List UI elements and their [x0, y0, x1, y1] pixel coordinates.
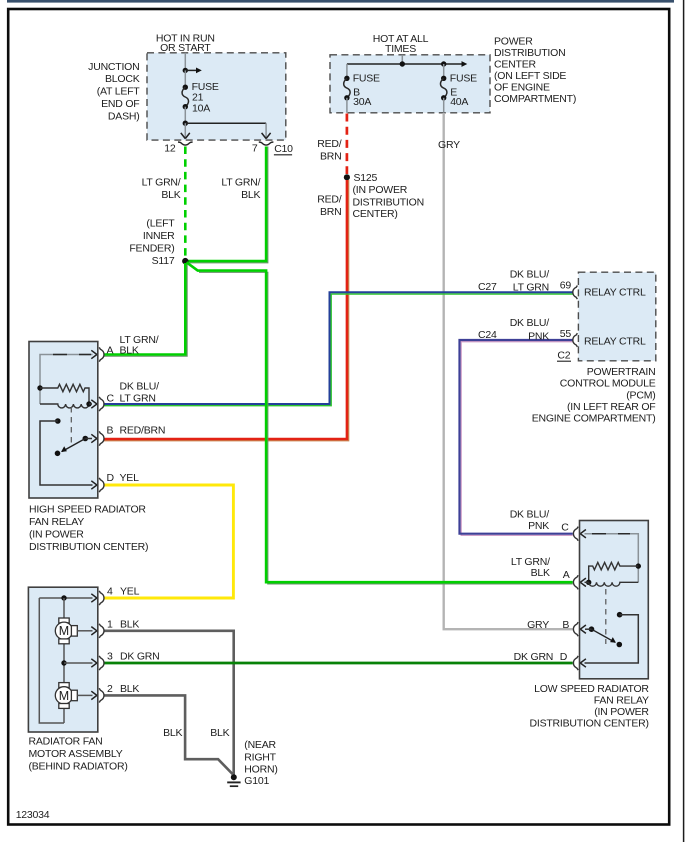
pin 3 connector — [99, 651, 159, 670]
relay coil (resistor + winding) — [586, 562, 641, 586]
svg-text:YEL: YEL — [120, 472, 140, 484]
high speed radiator fan relay box — [29, 342, 98, 499]
wire LT GRN/BLK from pin 12 (dashed) — [142, 147, 186, 259]
svg-text:MOTOR ASSEMBLY: MOTOR ASSEMBLY — [29, 748, 123, 760]
svg-text:G101: G101 — [244, 775, 269, 787]
wire LT GRN/BLK from pin 7 — [188, 147, 268, 263]
svg-text:C10: C10 — [274, 143, 293, 155]
svg-text:DK BLU/: DK BLU/ — [510, 317, 550, 329]
svg-text:CENTER): CENTER) — [353, 208, 398, 220]
splice S117 — [129, 217, 188, 266]
ground G101 — [227, 739, 277, 787]
svg-text:TIMES: TIMES — [385, 43, 416, 55]
label HOT IN RUN OR START — [156, 33, 215, 54]
svg-text:DK BLU/: DK BLU/ — [120, 381, 160, 393]
svg-text:DK GRN: DK GRN — [514, 651, 554, 663]
svg-text:(IN POWER: (IN POWER — [353, 184, 408, 196]
svg-text:INNER: INNER — [143, 230, 175, 242]
pin 1 connector — [99, 619, 139, 638]
svg-text:LT GRN/: LT GRN/ — [142, 177, 181, 189]
svg-text:BLK: BLK — [210, 727, 229, 739]
svg-text:LT GRN/: LT GRN/ — [511, 556, 550, 568]
pin B connector (low speed) — [527, 619, 578, 636]
junction block box — [147, 53, 286, 140]
svg-text:END OF: END OF — [101, 98, 139, 110]
pin D connector (low speed) — [514, 651, 579, 670]
svg-text:RED/: RED/ — [317, 138, 342, 150]
svg-text:RED/: RED/ — [317, 193, 342, 205]
connector drop pin 7 — [262, 123, 271, 138]
connector name C2 — [557, 350, 571, 362]
svg-text:C: C — [561, 522, 569, 534]
relay pin A internal lead — [580, 578, 588, 586]
svg-text:YEL: YEL — [120, 586, 140, 598]
svg-text:D: D — [107, 472, 115, 484]
label JUNCTION BLOCK (AT LEFT END OF DASH) — [88, 61, 140, 123]
fuse E 40A — [440, 64, 477, 113]
label RADIATOR FAN MOTOR ASSEMBLY (BEHIND RADIATOR) — [29, 736, 128, 773]
radiator fan motor assembly box — [28, 587, 97, 732]
svg-text:RIGHT: RIGHT — [244, 751, 276, 763]
svg-text:LT GRN: LT GRN — [120, 393, 156, 405]
fan motor 2 — [55, 683, 97, 709]
svg-text:BLK: BLK — [161, 189, 180, 201]
svg-text:GRY: GRY — [438, 139, 460, 151]
wire feed into junction block — [183, 53, 202, 74]
svg-text:BLOCK: BLOCK — [105, 73, 140, 85]
svg-text:DK BLU/: DK BLU/ — [510, 508, 550, 520]
svg-text:(PCM): (PCM) — [626, 389, 655, 401]
pin A connector (low speed) — [511, 556, 578, 590]
svg-text:LT GRN: LT GRN — [513, 282, 549, 294]
pin 4 connector — [99, 586, 139, 605]
svg-text:BLK: BLK — [531, 567, 550, 579]
svg-text:4: 4 — [107, 586, 113, 598]
svg-text:S117: S117 — [152, 255, 175, 267]
svg-text:RELAY CTRL: RELAY CTRL — [584, 336, 646, 348]
svg-text:RED/BRN: RED/BRN — [120, 425, 166, 437]
svg-text:HORN): HORN) — [244, 763, 277, 775]
svg-text:BLK: BLK — [120, 619, 139, 631]
relay switch — [580, 612, 638, 667]
svg-text:(IN POWER: (IN POWER — [594, 706, 649, 718]
svg-text:OR START: OR START — [160, 42, 211, 54]
svg-text:LOW SPEED RADIATOR: LOW SPEED RADIATOR — [534, 683, 649, 695]
svg-text:BLK: BLK — [241, 189, 260, 201]
svg-text:B: B — [562, 619, 569, 631]
connector C10 cup pin 12 — [164, 142, 192, 155]
svg-text:BRN: BRN — [320, 206, 342, 218]
svg-text:(BEHIND RADIATOR): (BEHIND RADIATOR) — [29, 761, 128, 773]
svg-text:FUSE: FUSE — [353, 73, 380, 85]
svg-text:C27: C27 — [478, 281, 497, 293]
connector name C10 — [274, 143, 293, 155]
svg-text:DK GRN: DK GRN — [120, 651, 160, 663]
wire BLK motor pin 2 to G101 — [104, 695, 233, 774]
wire LT GRN/BLK S117 to high speed relay pin A — [104, 263, 187, 356]
relay pin C internal lead — [89, 400, 97, 408]
svg-text:GRY: GRY — [527, 619, 549, 631]
svg-text:BRN: BRN — [320, 150, 342, 162]
svg-text:M: M — [59, 689, 69, 703]
wire BLK motor pin 1 to G101 — [104, 631, 234, 775]
PCM pin 69 labels — [478, 269, 646, 299]
svg-text:55: 55 — [560, 328, 572, 340]
svg-text:D: D — [560, 651, 568, 663]
wire DK BLU/LT GRN high speed relay pin C to PCM pin 69 — [104, 292, 573, 405]
label HOT AT ALL TIMES — [373, 33, 429, 55]
svg-text:DISTRIBUTION CENTER): DISTRIBUTION CENTER) — [530, 717, 649, 729]
label POWER DISTRIBUTION CENTER (ON LEFT SIDE OF ENGINE COMPARTMENT) — [494, 35, 576, 105]
svg-text:S125: S125 — [354, 172, 378, 184]
svg-text:A: A — [563, 569, 570, 581]
wire GRY fuse E to low speed relay pin B — [438, 113, 573, 629]
svg-text:BLK: BLK — [163, 727, 182, 739]
relay internal wire pin A to coil — [40, 350, 97, 404]
svg-text:COMPARTMENT): COMPARTMENT) — [494, 93, 576, 105]
fuse B 30A — [344, 64, 380, 113]
svg-text:JUNCTION: JUNCTION — [88, 61, 139, 73]
wire RED/BRN fuse B to S125 (dashed) — [317, 114, 347, 175]
svg-text:BLK: BLK — [120, 683, 139, 695]
PCM pin 55 connector — [478, 317, 646, 348]
svg-text:B: B — [107, 425, 114, 437]
svg-text:CONTROL MODULE: CONTROL MODULE — [560, 378, 656, 390]
wire DK GRN motor pin 3 to low speed relay pin D — [104, 662, 573, 665]
top window edge band — [7, 0, 674, 3]
label LOW SPEED RADIATOR FAN RELAY (IN POWER DISTRIBUTION CENTER) — [530, 683, 650, 730]
connector C10 cup pin 7 — [252, 142, 274, 155]
svg-text:10A: 10A — [192, 103, 210, 115]
powertrain control module box — [578, 272, 655, 361]
wire DK BLU/PNK PCM pin 55 to low speed relay pin C — [460, 340, 573, 535]
wire LT GRN/BLK S117 to low speed relay pin A — [187, 262, 573, 584]
label POWERTRAIN CONTROL MODULE (PCM) (IN LEFT REAR OF ENGINE COMPARTMENT) — [532, 366, 656, 424]
svg-text:PNK: PNK — [528, 331, 549, 343]
svg-text:RADIATOR FAN: RADIATOR FAN — [29, 736, 103, 748]
svg-text:RELAY CTRL: RELAY CTRL — [584, 286, 646, 298]
pin D connector — [99, 472, 139, 492]
svg-text:2: 2 — [107, 683, 113, 695]
bus wire hot at all times — [347, 55, 467, 67]
pin C connector — [99, 381, 159, 411]
pin B connector — [99, 425, 165, 446]
pin 2 connector — [99, 683, 139, 702]
svg-text:(IN LEFT REAR OF: (IN LEFT REAR OF — [567, 401, 655, 413]
junction block internal bus to pin 7 — [183, 107, 267, 126]
motor assembly internal bus — [39, 594, 97, 723]
svg-text:(AT LEFT: (AT LEFT — [97, 86, 141, 98]
label HIGH SPEED RADIATOR FAN RELAY (IN POWER DISTRIBUTION CENTER) — [29, 504, 148, 554]
svg-text:(ON LEFT SIDE: (ON LEFT SIDE — [494, 70, 566, 82]
svg-text:(IN POWER: (IN POWER — [29, 529, 84, 541]
svg-text:POWERTRAIN: POWERTRAIN — [587, 366, 656, 378]
svg-text:PNK: PNK — [528, 520, 549, 532]
svg-text:12: 12 — [164, 143, 176, 155]
svg-text:C24: C24 — [478, 329, 497, 341]
svg-text:FENDER): FENDER) — [129, 242, 174, 254]
svg-text:DISTRIBUTION: DISTRIBUTION — [494, 47, 565, 59]
relay coil (resistor + winding) — [37, 384, 91, 408]
page break line right — [683, 0, 685, 842]
svg-text:HIGH SPEED RADIATOR: HIGH SPEED RADIATOR — [29, 504, 146, 516]
diagram number 123034 — [16, 809, 50, 821]
svg-text:DISTRIBUTION CENTER): DISTRIBUTION CENTER) — [29, 541, 148, 553]
svg-text:ENGINE COMPARTMENT): ENGINE COMPARTMENT) — [532, 412, 656, 424]
svg-text:A: A — [107, 344, 114, 356]
power distribution center box — [330, 55, 490, 113]
svg-text:OF ENGINE: OF ENGINE — [494, 81, 550, 93]
svg-text:(NEAR: (NEAR — [244, 739, 276, 751]
svg-text:FAN RELAY: FAN RELAY — [594, 694, 649, 706]
svg-text:(LEFT: (LEFT — [146, 217, 175, 229]
svg-text:C: C — [107, 393, 115, 405]
svg-text:30A: 30A — [353, 96, 371, 108]
low speed radiator fan relay box — [580, 521, 649, 679]
svg-text:7: 7 — [252, 143, 258, 155]
svg-text:M: M — [59, 624, 69, 638]
splice S125 — [344, 172, 424, 220]
svg-text:CENTER: CENTER — [494, 58, 536, 70]
svg-text:40A: 40A — [450, 96, 468, 108]
svg-text:1: 1 — [107, 619, 113, 631]
svg-text:DASH): DASH) — [108, 110, 140, 122]
svg-text:BLK: BLK — [120, 344, 139, 356]
svg-text:C2: C2 — [557, 350, 570, 362]
wire RED/BRN S125 to high speed relay pin B — [104, 180, 349, 441]
relay internal wire pin C to coil — [580, 530, 638, 583]
connector drop pin 12 — [181, 123, 190, 138]
relay switch — [40, 418, 97, 489]
pin C connector (low speed) — [510, 508, 579, 541]
relay mechanical link — [70, 407, 72, 444]
svg-text:LT GRN/: LT GRN/ — [221, 177, 260, 189]
svg-text:POWER: POWER — [494, 35, 533, 47]
pin A connector — [99, 334, 159, 362]
PCM pin 69 connector — [573, 286, 578, 300]
svg-text:DK BLU/: DK BLU/ — [510, 269, 550, 281]
fuse 21 10A — [182, 70, 219, 114]
svg-text:FUSE: FUSE — [450, 73, 477, 85]
fan motor 1 — [55, 618, 97, 644]
relay mechanical link — [605, 589, 607, 644]
svg-text:69: 69 — [560, 279, 572, 291]
wire YEL high speed relay pin D to motor pin 4 — [104, 485, 233, 598]
svg-text:21: 21 — [192, 91, 204, 103]
svg-text:3: 3 — [107, 651, 113, 663]
svg-text:DISTRIBUTION: DISTRIBUTION — [353, 197, 424, 209]
svg-text:123034: 123034 — [16, 809, 50, 821]
svg-text:FAN RELAY: FAN RELAY — [29, 516, 84, 528]
